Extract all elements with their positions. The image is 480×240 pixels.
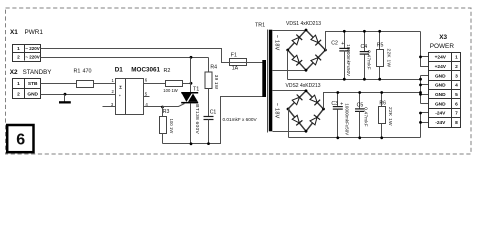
svg-text:+24V: +24V <box>435 64 447 70</box>
svg-text:GND: GND <box>435 92 446 98</box>
svg-text:0.47mkF: 0.47mkF <box>364 107 369 127</box>
svg-text:C5: C5 <box>357 103 364 109</box>
diode VDS2 left-bottom <box>292 115 302 125</box>
svg-text:R5: R5 <box>377 43 384 49</box>
node C1 bottom <box>207 142 210 145</box>
resistor R4 <box>205 58 219 90</box>
wire D1 pin6 to R2 <box>144 83 166 85</box>
wire VDS1 plus riser <box>326 32 421 51</box>
svg-text:10000mkFx50V: 10000mkFx50V <box>346 44 351 76</box>
diode VDS2 bottom-right <box>310 115 320 125</box>
svg-text:100 1W: 100 1W <box>169 119 174 134</box>
wire sec2 top <box>273 90 307 92</box>
connector X1 PWR1 <box>13 45 41 62</box>
svg-text:VDS2 4xKD213: VDS2 4xKD213 <box>286 83 321 89</box>
svg-text:R1: R1 <box>74 68 81 74</box>
transformer TR1 <box>255 23 280 133</box>
bottom left rail <box>163 97 263 144</box>
wire R1 to D1 pin1 <box>94 83 116 85</box>
fuse F1 <box>230 53 248 72</box>
+24V feed <box>421 32 429 67</box>
wire sec1 top <box>273 30 307 32</box>
svg-text:STANDBY: STANDBY <box>23 69 52 76</box>
svg-text:1A: 1A <box>232 66 239 72</box>
node R2/T1 <box>190 82 193 85</box>
svg-text:X3: X3 <box>439 34 447 41</box>
svg-text:C1: C1 <box>210 110 217 116</box>
svg-text:MOC3061: MOC3061 <box>131 66 160 73</box>
diode VDS1 left-top <box>292 35 302 45</box>
svg-text:R4: R4 <box>210 64 217 70</box>
svg-text:2: 2 <box>455 64 458 70</box>
svg-text:-24V: -24V <box>435 120 446 126</box>
gnd bus <box>420 76 422 104</box>
resistor R5 <box>377 30 392 81</box>
svg-text:R2: R2 <box>164 68 171 74</box>
svg-text:POWER: POWER <box>430 43 455 50</box>
svg-text:~ 18V: ~ 18V <box>274 103 280 119</box>
wire VDS2 plus riser to gnd rail B <box>324 93 421 109</box>
svg-text:1: 1 <box>17 81 20 87</box>
pin 3 stub <box>103 106 116 108</box>
svg-text:6: 6 <box>455 101 458 107</box>
svg-text:VDS1 4xKD213: VDS1 4xKD213 <box>286 21 321 27</box>
page dashed frame <box>6 8 472 154</box>
svg-text:0.47mkF: 0.47mkF <box>367 50 372 70</box>
svg-text:2: 2 <box>17 55 20 61</box>
wire VDS1 minus to gnd rail <box>287 51 289 80</box>
svg-text:~ 220V: ~ 220V <box>25 55 39 60</box>
wire R2 to T1 <box>183 83 191 85</box>
svg-text:3: 3 <box>455 73 458 79</box>
svg-text:GND: GND <box>27 91 38 97</box>
svg-text:+: + <box>340 102 343 108</box>
wire D1 pin4 to gate node <box>144 106 163 108</box>
svg-text:GND: GND <box>435 101 446 107</box>
svg-text:STB: STB <box>28 81 38 87</box>
svg-text:~ 18V: ~ 18V <box>274 35 280 51</box>
resistor R3 <box>160 107 175 144</box>
LED inside D1 <box>119 86 122 96</box>
ground <box>64 95 66 102</box>
svg-text:22K 1W: 22K 1W <box>387 107 393 126</box>
svg-text:5: 5 <box>455 92 458 98</box>
svg-text:470: 470 <box>83 68 92 74</box>
capacitor C1 <box>204 89 258 144</box>
optocoupler D1 MOC3061 <box>115 66 161 114</box>
sheet number box 6 <box>7 125 33 152</box>
bridge VDS2 <box>286 83 325 133</box>
wire F1 to TR1 primary <box>248 62 263 64</box>
svg-text:6: 6 <box>16 131 25 148</box>
diode VDS2 left-top <box>292 95 302 105</box>
connector X3 POWER <box>429 53 461 128</box>
gnd rail A <box>288 79 421 81</box>
svg-text:C4: C4 <box>361 44 368 50</box>
svg-text:+: + <box>341 41 344 47</box>
svg-text:R6: R6 <box>379 101 386 107</box>
bridge VDS1 <box>286 21 327 71</box>
diode VDS1 left-bottom <box>292 55 302 65</box>
svg-text:22K 1W: 22K 1W <box>386 49 392 68</box>
resistor R1 <box>77 81 94 88</box>
svg-text:X2: X2 <box>10 69 18 76</box>
node pin4/R3 <box>161 106 164 109</box>
pin number labels D1 <box>111 78 115 107</box>
svg-text:PWR1: PWR1 <box>25 29 44 36</box>
wire gate <box>163 104 185 107</box>
svg-text:D1: D1 <box>115 66 124 73</box>
svg-text:F1: F1 <box>231 53 237 59</box>
svg-text:10000mkFx50V: 10000mkFx50V <box>345 103 350 135</box>
svg-text:~ 220V: ~ 220V <box>25 46 39 51</box>
node T1 bottom <box>190 142 193 145</box>
node ground junction <box>64 93 67 96</box>
minus rail <box>289 137 421 139</box>
wire VDS2 minus to -rail <box>288 109 290 138</box>
resistor R6 <box>379 91 393 139</box>
wire X1.1 to F1 <box>41 49 230 63</box>
wire sec1 bottom <box>273 70 307 72</box>
svg-text:+24V: +24V <box>435 55 447 61</box>
svg-text:R3: R3 <box>163 109 170 115</box>
pin 5 stub <box>144 96 150 98</box>
capacitor C5 <box>355 91 369 139</box>
wire X2.2 to D1 pin2 <box>41 94 116 96</box>
wire sec2 bottom <box>273 131 307 133</box>
svg-text:TR1: TR1 <box>255 23 265 29</box>
capacitor C3 <box>331 91 349 139</box>
node T1 top <box>190 56 193 59</box>
triac T1 <box>181 58 200 144</box>
svg-text:0.01mkF x 600V: 0.01mkF x 600V <box>223 117 258 122</box>
wire X1.2 to T1 and snubber <box>41 57 209 59</box>
-24V feed <box>421 113 429 138</box>
svg-text:1: 1 <box>455 55 458 61</box>
resistor R2 <box>166 81 183 87</box>
svg-text:7: 7 <box>455 111 458 117</box>
svg-text:GND: GND <box>435 73 446 79</box>
svg-text:C3: C3 <box>331 101 338 107</box>
svg-text:39 1W: 39 1W <box>214 75 219 90</box>
svg-text:1: 1 <box>17 46 20 52</box>
diode VDS2 top-right <box>310 95 320 105</box>
svg-text:BT138 600V: BT138 600V <box>194 104 200 134</box>
capacitor C2 <box>331 30 351 81</box>
diode VDS1 bottom-right <box>311 55 321 65</box>
svg-text:4: 4 <box>455 83 458 89</box>
svg-text:X1: X1 <box>10 29 18 36</box>
wire X2.1 to R1 <box>41 83 77 85</box>
svg-text:C2: C2 <box>331 40 338 46</box>
svg-text:8: 8 <box>455 120 458 126</box>
svg-text:GND: GND <box>435 83 446 89</box>
svg-text:100 1W: 100 1W <box>163 88 177 93</box>
svg-text:T1: T1 <box>193 86 199 92</box>
diode VDS1 top-right <box>311 35 321 45</box>
svg-text:-24V: -24V <box>435 111 446 117</box>
capacitor C4 <box>360 30 372 81</box>
svg-text:2: 2 <box>17 91 20 97</box>
connector X2 STANDBY <box>13 79 41 99</box>
